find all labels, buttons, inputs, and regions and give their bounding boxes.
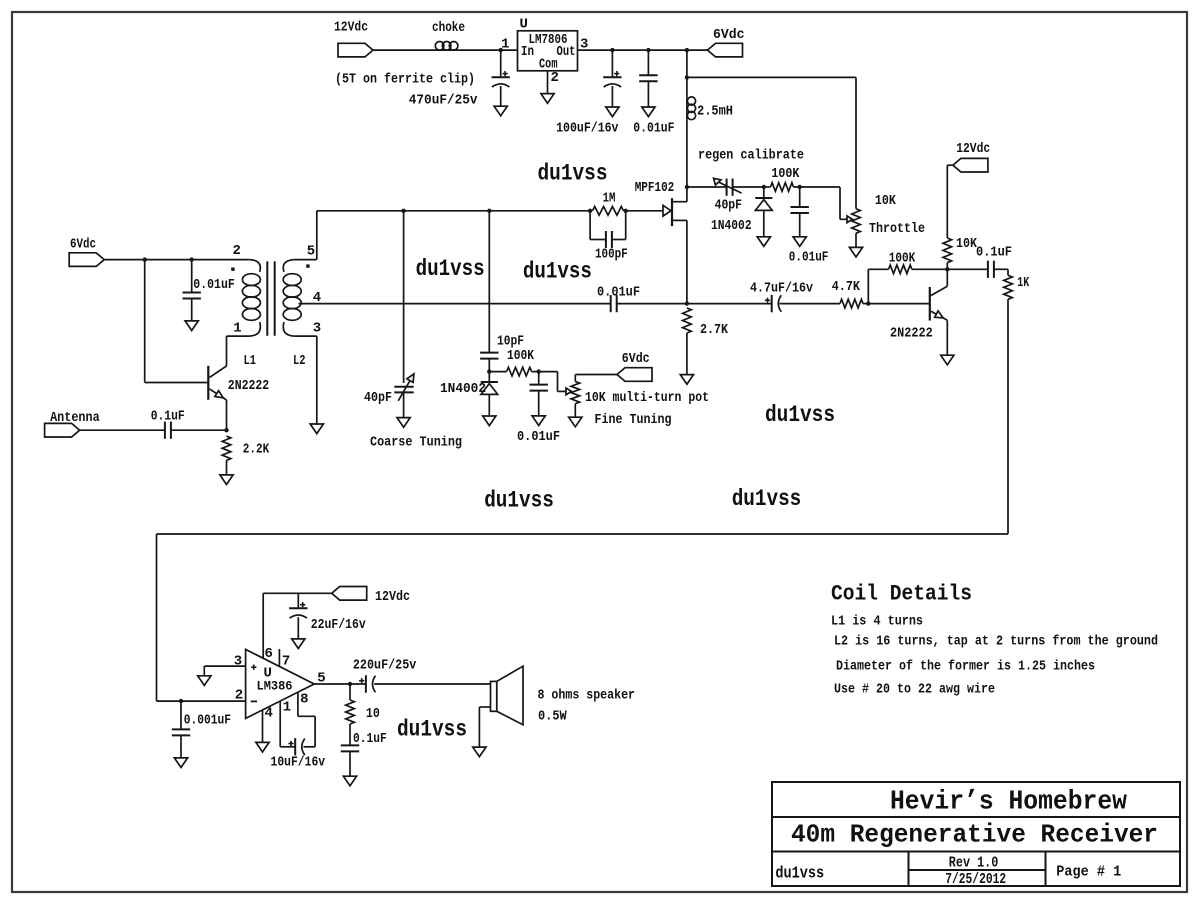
resistor 10 zobel (346, 700, 355, 724)
svg-text:2.2K: 2.2K (243, 442, 270, 458)
diode 1N4002 regen (763, 187, 765, 198)
node junction regen feed (685, 75, 689, 79)
ground under 0.01uF top (642, 107, 655, 117)
node junction 470uF (499, 48, 503, 52)
node junction 6V rail drop (685, 48, 689, 52)
svg-text:1: 1 (501, 37, 509, 53)
wire pin3 to ground (204, 665, 245, 667)
capacitor 0.1uF output (987, 261, 989, 278)
svg-text:22uF/16v: 22uF/16v (311, 617, 366, 633)
resistor 100K feedback (889, 265, 912, 274)
connector Antenna (45, 423, 80, 437)
potentiometer 10K Fine Tuning (571, 382, 580, 404)
svg-text:0.1uF: 0.1uF (151, 408, 185, 424)
wire 220uF to speaker (374, 683, 490, 685)
ground under fine tuning (569, 417, 582, 427)
ground under 2.2K (220, 475, 233, 485)
svg-text:100uF/16v: 100uF/16v (556, 121, 619, 137)
svg-text:Coarse Tuning: Coarse Tuning (370, 435, 462, 451)
svg-text:L1 is 4 turns: L1 is 4 turns (831, 614, 923, 630)
ground under Q3 emitter (941, 355, 954, 365)
connector 12Vdc audio (332, 587, 367, 601)
op-amp U2 LM386 (246, 649, 315, 718)
connector 6Vdc left (69, 253, 104, 267)
capacitor 4.7uF/16v (771, 295, 773, 312)
svg-text:LM386: LM386 (257, 678, 293, 693)
wire pin5node to 10 (349, 684, 351, 700)
wire 0.1uF to 1K (994, 268, 1008, 270)
ground under 470uF (494, 106, 507, 116)
svg-text:10uF/16v: 10uF/16v (271, 755, 326, 771)
svg-text:MPF102: MPF102 (635, 180, 675, 196)
wire 6Vdc to transformer pin2 (104, 259, 250, 261)
node junction collector (945, 267, 949, 271)
wire U1 pin2 stub (547, 71, 549, 94)
svg-text:2: 2 (233, 243, 241, 259)
ground under pin4 (256, 742, 269, 752)
connector 6Vdc top (708, 43, 743, 57)
node junction 0.01uF tuning (537, 369, 541, 373)
svg-text:1M: 1M (603, 190, 616, 206)
diode 1N4002 tuning (488, 372, 490, 382)
capacitor 22uF/16v (297, 593, 299, 608)
capacitor 0.01uF regen (799, 187, 801, 207)
node junction pin5 out (348, 682, 352, 686)
svg-text:1N4002: 1N4002 (440, 381, 486, 397)
svg-text:5: 5 (307, 243, 315, 259)
node junction base drop (143, 257, 147, 261)
node junction 10pF drop (487, 209, 491, 213)
wire diode node to 100K (764, 186, 771, 188)
node junction 0.01uF top (646, 48, 650, 52)
svg-text:100K: 100K (889, 250, 916, 266)
capacitor 0.001uF (180, 701, 182, 729)
svg-text:12Vdc: 12Vdc (375, 589, 410, 605)
capacitor 0.01uF bypass (191, 260, 193, 293)
wire speaker return (479, 706, 490, 708)
ground under 2.7K (680, 375, 693, 385)
svg-text:7/25/2012: 7/25/2012 (945, 871, 1006, 888)
wire pin1 stub (279, 701, 281, 747)
svg-text:2N2222: 2N2222 (890, 326, 933, 342)
capacitor 100pF parallel (589, 211, 591, 240)
inductor 2.5mH (687, 97, 695, 105)
svg-text:0.1uF: 0.1uF (353, 731, 387, 747)
svg-text:du1vss: du1vss (416, 256, 485, 282)
svg-text:Antenna: Antenna (50, 410, 100, 426)
node junction 0.001uF (179, 699, 183, 703)
svg-text:0.01uF: 0.01uF (789, 250, 829, 266)
svg-text:Page # 1: Page # 1 (1056, 863, 1121, 880)
phase dot L1 (231, 268, 234, 271)
connector 12Vdc right (953, 158, 988, 172)
svg-text:Out: Out (557, 44, 576, 60)
capacitor 470uF/25v (500, 50, 502, 77)
ground under U1 pin2 (541, 94, 554, 104)
wire 2.5mH to drain node (686, 119, 688, 187)
wire 0.01uF pin4 to source node (617, 303, 687, 305)
svg-text:0.5W: 0.5W (538, 709, 567, 725)
capacitor 0.01uF pin4 (610, 295, 612, 312)
resistor 4.7K (840, 299, 863, 308)
resistor 1M (593, 207, 624, 216)
svg-text:6Vdc: 6Vdc (622, 351, 650, 367)
wire base drop (144, 260, 146, 383)
wire 100K to corner tuning (532, 371, 558, 373)
svg-text:du1vss: du1vss (775, 864, 824, 883)
node junction source (685, 301, 689, 305)
svg-text:470uF/25v: 470uF/25v (409, 93, 478, 109)
svg-text:10K: 10K (875, 193, 896, 209)
speaker LS1 (491, 681, 497, 711)
wire pin5 riser (316, 211, 318, 260)
phase dot L2 (306, 264, 309, 267)
variable capacitor 40pF Coarse Tuning (394, 386, 413, 388)
inductor L2 secondary winding (283, 260, 294, 272)
wire drain node to 40pF (687, 186, 727, 188)
capacitor 0.1uF antenna (164, 422, 166, 439)
wire 0.1uF to emitter node (171, 429, 227, 431)
wire L2 pin3 lead (294, 335, 317, 337)
ground under 0.1uF zobel (343, 776, 356, 786)
transistor Q3 2N2222 right (929, 287, 931, 321)
svg-text:regen calibrate: regen calibrate (698, 148, 804, 164)
svg-text:4.7K: 4.7K (832, 279, 861, 295)
node junction 100uF (610, 48, 614, 52)
ground under 0.001uF (174, 758, 187, 768)
svg-text:L2: L2 (293, 353, 306, 369)
node junction base 2N2222 right (866, 301, 870, 305)
wire gate bus (317, 210, 590, 212)
svg-text:du1vss: du1vss (538, 160, 608, 186)
node junction 1M left (588, 209, 592, 213)
resistor 100K tuning (489, 371, 506, 373)
wire L1 pin1 lead (227, 335, 250, 337)
wire 40pF to diode node (733, 186, 764, 188)
node junction 1M right (624, 209, 628, 213)
wire corner down to throttle wiper (839, 187, 841, 219)
svg-text:6: 6 (265, 646, 273, 662)
svg-text:3: 3 (234, 654, 242, 670)
svg-text:du1vss: du1vss (732, 486, 802, 512)
resistor 2.2K (222, 436, 231, 460)
svg-text:4: 4 (265, 705, 273, 721)
transistor Q2 MPF102 JFET (671, 198, 673, 226)
node junction FET drain (685, 185, 689, 189)
svg-text:du1vss: du1vss (484, 487, 554, 513)
wire pin4 stub (262, 710, 264, 743)
wire pin2 input (157, 700, 246, 702)
svg-text:0.1uF: 0.1uF (976, 245, 1012, 261)
wire to fine wiper (557, 372, 559, 392)
svg-text:Diameter of the former is 1.25: Diameter of the former is 1.25 inches (836, 659, 1095, 675)
transformer T1 core (266, 261, 268, 335)
svg-text:100pF: 100pF (595, 247, 628, 263)
title block frame (772, 782, 1180, 886)
svg-text:1: 1 (283, 700, 291, 716)
svg-text:12Vdc: 12Vdc (956, 141, 990, 157)
svg-text:40pF: 40pF (364, 390, 392, 406)
svg-text:Rev 1.0: Rev 1.0 (949, 854, 999, 871)
svg-text:0.001uF: 0.001uF (184, 712, 231, 728)
wire collector to 0.1uF (947, 268, 988, 270)
ground under coarse tuning (397, 418, 410, 428)
capacitor 10uF/16v (280, 746, 295, 748)
wire pin8 loop (297, 692, 299, 716)
svg-text:3: 3 (313, 320, 321, 336)
wire 1M to gate (626, 210, 663, 212)
svg-text:10: 10 (366, 706, 380, 722)
wire pin5 out (314, 683, 366, 685)
resistor 2.7K (683, 308, 692, 333)
ground under pin3 (198, 676, 211, 686)
svg-text:1N4002: 1N4002 (711, 218, 752, 234)
resistor 100K regen (771, 183, 794, 192)
ground under L2 pin3 (310, 424, 323, 434)
wire 10pF drop (488, 211, 490, 353)
capacitor 0.01uF top (647, 50, 649, 75)
ground under 0.01uF tuning (532, 416, 545, 426)
svg-text:1K: 1K (1017, 275, 1029, 291)
svg-text:12Vdc: 12Vdc (334, 20, 368, 36)
wire 6V drop to regen feed (686, 50, 688, 97)
svg-text:4.7uF/16v: 4.7uF/16v (750, 281, 813, 297)
ground under 0.01uF regen (793, 237, 806, 247)
svg-text:6Vdc: 6Vdc (713, 27, 745, 43)
svg-text:Throttle: Throttle (869, 221, 925, 237)
wire U1 pin3 output (578, 49, 708, 51)
svg-text:du1vss: du1vss (397, 717, 467, 743)
svg-text:0.01uF: 0.01uF (633, 121, 674, 137)
svg-text:U: U (520, 17, 528, 33)
regulator U1 LM7806 (518, 31, 578, 71)
wire L2 pin4 lead (299, 303, 611, 305)
inductor L1 primary winding (250, 260, 261, 272)
svg-text:10pF: 10pF (497, 333, 524, 349)
svg-text:Hevir’s Homebrew: Hevir’s Homebrew (890, 788, 1128, 818)
wire 100K to corner (794, 186, 841, 188)
node junction emitter (224, 428, 228, 432)
node junction 1N4002 regen (762, 185, 766, 189)
svg-text:100K: 100K (771, 166, 799, 182)
svg-text:10K multi-turn pot: 10K multi-turn pot (585, 390, 709, 406)
connector 12Vdc top input (338, 43, 373, 57)
resistor 10K collector (943, 238, 952, 263)
svg-text:Use # 20 to 22 awg wire: Use # 20 to 22 awg wire (834, 682, 995, 698)
node junction 10pF bottom (487, 369, 491, 373)
ground under 100uF (606, 107, 619, 117)
svg-text:2N2222: 2N2222 (228, 378, 269, 394)
resistor 1K (1004, 275, 1013, 299)
ground under throttle (849, 247, 862, 257)
svg-text:2: 2 (551, 70, 559, 86)
wire base node to Q3 (868, 303, 930, 305)
wire base node up (867, 269, 869, 303)
wire 100K to collector node (912, 268, 947, 270)
choke L (5T on ferrite clip) (435, 42, 444, 51)
svg-text:(5T on ferrite clip): (5T on ferrite clip) (335, 72, 475, 88)
wire choke to U1 pin1 (458, 49, 518, 51)
svg-text:10K: 10K (956, 236, 977, 252)
svg-text:7: 7 (282, 654, 290, 670)
ground under speaker (473, 747, 486, 757)
svg-text:du1vss: du1vss (523, 259, 592, 285)
wire 12Vdc right down (947, 164, 953, 166)
wire regen feed to throttle (687, 76, 856, 78)
node junction 0.01uF regen (798, 185, 802, 189)
potentiometer 10K Throttle (852, 209, 861, 233)
connector 6Vdc fine tuning (617, 368, 652, 382)
svg-text:40m Regenerative Receiver: 40m Regenerative Receiver (791, 820, 1158, 850)
svg-text:6Vdc: 6Vdc (70, 237, 96, 253)
pin stub 7 (278, 649, 280, 666)
svg-text:du1vss: du1vss (765, 402, 835, 428)
svg-text:L2 is 16 turns, tap at 2 turns: L2 is 16 turns, tap at 2 turns from the … (834, 634, 1158, 650)
node junction 0.01uF bypass (190, 257, 194, 261)
node junction coarse drop (401, 209, 405, 213)
svg-text:Coil Details: Coil Details (831, 582, 972, 607)
capacitor 100uF/16v (611, 50, 613, 77)
svg-text:100K: 100K (507, 348, 534, 364)
svg-text:In: In (521, 44, 534, 60)
ground under 0.01uF bypass (185, 321, 198, 331)
svg-text:8 ohms speaker: 8 ohms speaker (538, 688, 636, 704)
svg-text:1: 1 (233, 320, 241, 336)
svg-text:0.01uF: 0.01uF (597, 284, 640, 300)
capacitor 10pF (480, 352, 498, 354)
svg-text:0.01uF: 0.01uF (517, 429, 560, 445)
svg-text:40pF: 40pF (715, 197, 742, 213)
wire antenna to 0.1uF (80, 429, 165, 431)
capacitor 0.1uF zobel (349, 724, 351, 745)
wire 4.7uF to 4.7K (780, 303, 841, 305)
wire 12Vdc to choke (373, 49, 435, 51)
wire source node to 4.7uF (687, 303, 772, 305)
wire L2 pin5 to riser (294, 259, 317, 261)
svg-text:choke: choke (432, 20, 465, 36)
svg-text:L1: L1 (244, 353, 257, 369)
ground under 1N4002 tuning (483, 416, 496, 426)
wire 4.7K to base node (863, 303, 868, 305)
capacitor 0.01uF tuning (538, 372, 540, 385)
svg-text:2.5mH: 2.5mH (697, 103, 733, 119)
svg-text:8: 8 (300, 691, 308, 707)
wire 12V audio to pin6 (263, 592, 332, 594)
ground under 22uF (292, 639, 305, 649)
ground under 1N4002 regen (757, 237, 770, 247)
svg-text:Fine Tuning: Fine Tuning (595, 412, 672, 428)
transistor Q1 2N2222 input (207, 366, 209, 400)
svg-text:0.01uF: 0.01uF (193, 277, 235, 293)
variable capacitor 40pF regen (726, 179, 728, 196)
wire audio link (1007, 299, 1009, 534)
svg-text:2.7K: 2.7K (700, 322, 728, 338)
svg-text:220uF/25v: 220uF/25v (353, 658, 417, 674)
capacitor 220uF/25v (365, 675, 367, 692)
wire coarse drop (403, 211, 405, 383)
